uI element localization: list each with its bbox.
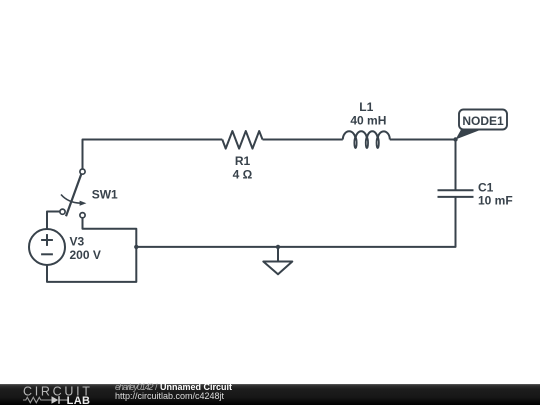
wire from V3 top to switch pole — [47, 212, 60, 230]
wire between R1 and L1 — [263, 139, 343, 141]
svg-text:200 V: 200 V — [70, 248, 101, 262]
svg-text:C1: C1 — [478, 180, 494, 194]
svg-text:4 Ω: 4 Ω — [233, 168, 253, 182]
footer attribution text — [115, 383, 232, 402]
switch SW1 top throw terminal circle — [80, 169, 85, 174]
svg-text:10 mF: 10 mF — [478, 194, 513, 208]
capacitor C1 — [438, 190, 474, 197]
wire from C1 down and return rail to left — [136, 197, 455, 247]
svg-text:SW1: SW1 — [92, 188, 118, 202]
svg-text:40 mH: 40 mH — [350, 114, 386, 128]
voltage source V3 circle — [29, 229, 65, 265]
NODE1 callout pointer wedge — [456, 129, 480, 140]
resistor R1 — [222, 131, 262, 149]
NODE1 callout box — [459, 110, 507, 130]
wire top rail from switch to resistor — [83, 140, 223, 170]
junction dot at node1 — [453, 137, 457, 141]
inductor L1 — [343, 131, 390, 148]
CircuitLab logo — [21, 385, 93, 405]
wire from bottom throw down to junction and bottom rail — [47, 218, 136, 282]
junction dot left return — [134, 245, 138, 249]
svg-text:R1: R1 — [235, 154, 251, 168]
switch SW1 pole terminal circle — [60, 209, 65, 214]
ground symbol — [263, 247, 292, 274]
V3 plus sign — [41, 234, 53, 246]
footer bar — [0, 384, 540, 405]
svg-text:NODE1: NODE1 — [462, 114, 504, 128]
switch SW1 bottom throw terminal circle — [80, 213, 85, 218]
junction dot ground — [276, 245, 280, 249]
svg-text:L1: L1 — [359, 100, 373, 114]
switch SW1 lever — [66, 174, 81, 216]
svg-text:LAB: LAB — [67, 395, 91, 405]
switch SW1 arc arrowhead — [80, 201, 87, 206]
svg-text:V3: V3 — [70, 234, 85, 248]
V3 minus sign — [41, 253, 53, 255]
switch SW1 actuation arc — [61, 195, 81, 204]
wire from L1 to node corner — [390, 140, 456, 191]
